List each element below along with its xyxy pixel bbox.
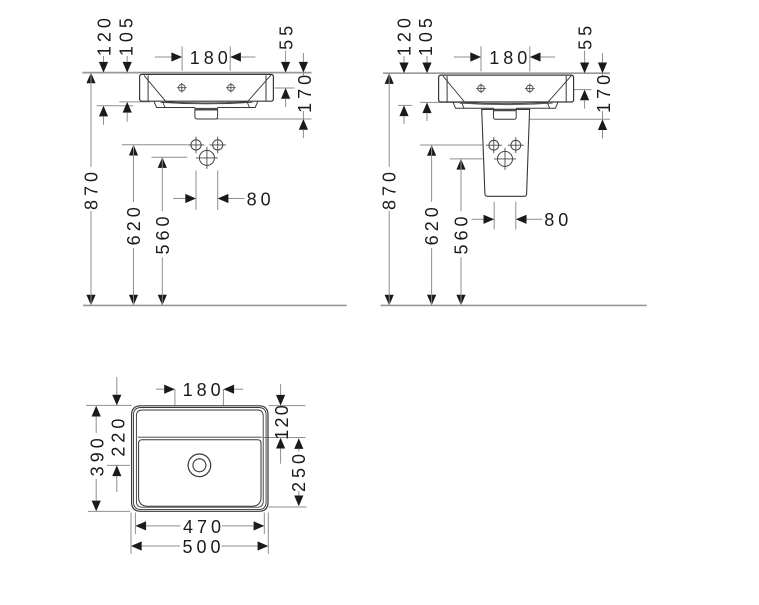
svg-text:180: 180: [489, 48, 531, 68]
svg-text:80: 80: [544, 210, 572, 230]
svg-text:120: 120: [272, 403, 292, 440]
svg-text:120: 120: [395, 14, 415, 56]
svg-text:560: 560: [452, 212, 472, 254]
svg-text:180: 180: [190, 48, 232, 68]
svg-text:250: 250: [289, 450, 309, 492]
svg-text:870: 870: [82, 168, 102, 210]
svg-text:170: 170: [594, 71, 614, 113]
svg-text:180: 180: [183, 380, 225, 400]
svg-text:80: 80: [247, 189, 275, 209]
svg-text:105: 105: [117, 14, 137, 56]
svg-text:55: 55: [576, 22, 596, 50]
svg-text:620: 620: [422, 203, 442, 245]
svg-text:470: 470: [183, 517, 225, 537]
svg-text:620: 620: [124, 203, 144, 245]
svg-text:120: 120: [95, 14, 115, 56]
svg-text:560: 560: [153, 212, 173, 254]
svg-text:55: 55: [277, 22, 297, 50]
svg-text:220: 220: [109, 415, 129, 457]
svg-text:390: 390: [88, 434, 108, 476]
svg-text:500: 500: [182, 537, 224, 557]
svg-text:170: 170: [295, 71, 315, 113]
svg-text:105: 105: [416, 14, 436, 56]
svg-text:870: 870: [380, 168, 400, 210]
